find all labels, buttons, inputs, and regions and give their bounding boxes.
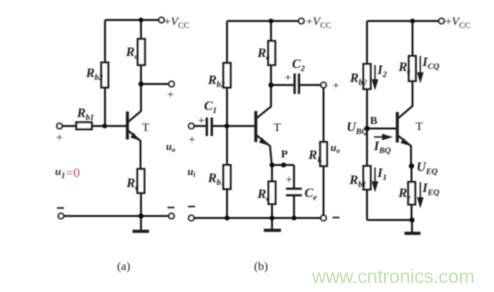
svg-text:UBQ: UBQ: [347, 119, 368, 136]
svg-text:I1: I1: [377, 165, 387, 182]
svg-text:T: T: [274, 120, 282, 134]
svg-text:UEQ: UEQ: [417, 159, 438, 176]
svg-text:+VCC: +VCC: [445, 14, 471, 30]
svg-text:+VCC: +VCC: [306, 14, 332, 30]
svg-text:P: P: [281, 149, 288, 161]
svg-text:Ce: Ce: [305, 185, 318, 202]
svg-text:(b): (b): [254, 259, 268, 273]
svg-text:(a): (a): [117, 259, 130, 273]
svg-text:Rc: Rc: [125, 44, 139, 61]
svg-text:C1: C1: [204, 98, 217, 115]
svg-text:+: +: [333, 78, 340, 92]
svg-text:+: +: [189, 132, 196, 146]
svg-text:IEQ: IEQ: [422, 180, 440, 197]
svg-text:C2: C2: [292, 56, 306, 73]
svg-text:u1: u1: [55, 166, 65, 180]
svg-text:I2: I2: [377, 62, 388, 79]
svg-text:+: +: [285, 70, 292, 84]
svg-text:Rb1: Rb1: [76, 105, 94, 122]
svg-text:+: +: [167, 87, 174, 101]
svg-text:T: T: [416, 119, 424, 133]
svg-text:uo: uo: [166, 142, 176, 154]
svg-text:+: +: [198, 113, 205, 127]
svg-text:+: +: [56, 130, 63, 144]
svg-text:IBQ: IBQ: [373, 138, 391, 155]
svg-text:+VCC: +VCC: [164, 14, 190, 30]
svg-text:+: +: [286, 172, 293, 186]
svg-text:B: B: [370, 115, 378, 127]
svg-text:ICQ: ICQ: [422, 54, 440, 71]
svg-text:www.cntronics.com: www.cntronics.com: [311, 267, 475, 288]
svg-text:uo: uo: [331, 143, 341, 155]
svg-text:=0: =0: [66, 165, 80, 180]
svg-text:ui: ui: [188, 167, 196, 179]
svg-text:T: T: [142, 120, 150, 134]
